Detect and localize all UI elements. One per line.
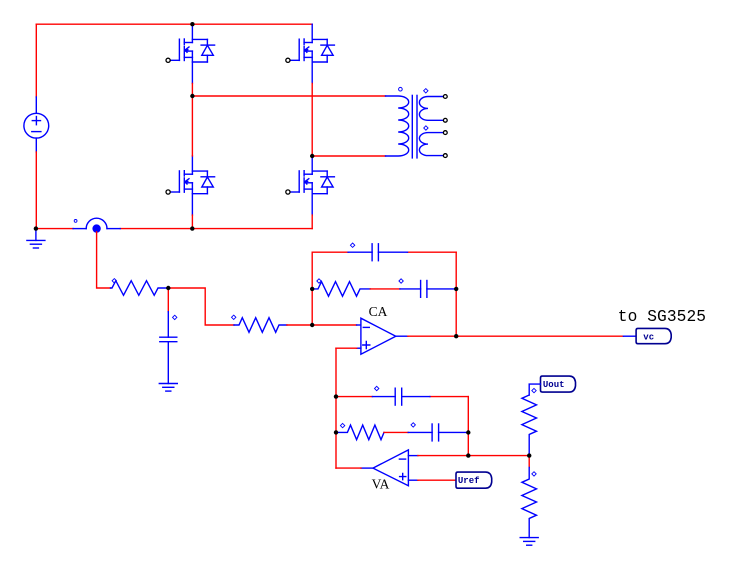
node marker R5	[532, 388, 536, 392]
op-amp CA minus sign	[363, 326, 369, 328]
resistor R2	[234, 318, 287, 333]
wire R2 to CA minus	[287, 324, 357, 326]
resistor R3	[312, 282, 370, 297]
node bottom left	[34, 226, 38, 230]
wire VA right vertical	[467, 397, 469, 456]
wire feedback right vertical	[455, 252, 457, 336]
node divider	[527, 453, 531, 457]
node marker R6	[532, 472, 536, 476]
transformer TX primary	[386, 96, 409, 156]
node A	[190, 94, 194, 98]
voltage source Vdc	[24, 113, 49, 138]
wire CA plus input	[357, 347, 361, 349]
node CA minus	[310, 323, 314, 327]
wire VA top branch	[336, 396, 468, 398]
op-amp VA minus sign	[399, 458, 405, 460]
svg-text:Uref: Uref	[458, 476, 480, 486]
op-amp VA plus sign	[400, 474, 406, 480]
wire node A to transformer	[192, 95, 385, 97]
node top rail	[190, 22, 194, 26]
wire VA minus input	[408, 455, 418, 457]
wire feedback left vertical	[311, 252, 313, 325]
transformer dot marker secondary 2	[424, 126, 428, 130]
node marker R1	[112, 279, 116, 283]
node VA fb mid	[334, 430, 338, 434]
node marker C5	[411, 423, 415, 427]
wire node B to transformer	[312, 155, 385, 157]
wire divider junction	[528, 456, 530, 468]
node marker R2	[232, 315, 236, 319]
svg-text:vc: vc	[643, 332, 654, 342]
node marker R4	[340, 423, 344, 427]
transistor Q1 (top left MOSFET)	[166, 24, 215, 83]
resistor R4	[336, 425, 384, 440]
svg-text:Uout: Uout	[543, 380, 565, 390]
node marker C1	[173, 315, 177, 319]
transformer dot marker secondary 1	[424, 89, 428, 93]
wire C1 top	[167, 288, 169, 312]
wire R3 to C3	[370, 288, 400, 290]
transformer core	[412, 95, 417, 157]
svg-text:to SG3525: to SG3525	[618, 308, 706, 326]
node fb right	[454, 287, 458, 291]
wire control left vertical	[335, 348, 337, 468]
resistor R1	[111, 281, 169, 296]
node marker C4	[375, 386, 379, 390]
transistor Q4 (bottom right MOSFET)	[286, 156, 335, 215]
wire leg A	[191, 83, 193, 228]
wire bottom rail	[36, 228, 312, 230]
node VA fb top	[334, 394, 338, 398]
capacitor C4	[395, 388, 402, 405]
wire CA output	[396, 335, 408, 337]
transistor Q3 (top right MOSFET)	[286, 24, 335, 83]
ground (C1)	[159, 384, 177, 392]
capacitor C2	[372, 244, 378, 261]
wire source bottom	[35, 138, 37, 152]
wire R1 node to R2	[168, 288, 234, 325]
svg-text:CA: CA	[369, 304, 388, 319]
ground (input)	[35, 229, 37, 241]
capacitor C3	[421, 281, 427, 298]
resistor R5	[522, 395, 537, 456]
op-amp CA plus sign	[363, 342, 370, 349]
wire VA plus input	[408, 479, 418, 481]
tag Uref	[456, 472, 492, 488]
wire leg B	[311, 83, 313, 228]
resistor R6	[522, 467, 537, 537]
wire sensor output	[97, 232, 111, 288]
wire left drop to source	[35, 24, 37, 97]
node R1 out	[166, 286, 170, 290]
transformer secondary 2	[419, 133, 443, 156]
node fb left	[310, 287, 314, 291]
tag Uout	[541, 376, 576, 392]
ground (divider)	[520, 538, 538, 546]
transformer terminals	[443, 95, 447, 158]
transformer dot marker primary	[399, 87, 403, 91]
wire feedback top branch	[312, 251, 456, 253]
op-amp CA	[361, 318, 396, 354]
wire R4 to C5	[384, 431, 408, 433]
wire Uout to divider	[529, 384, 540, 395]
transformer secondary 1	[419, 97, 443, 121]
node marker sensor	[74, 220, 77, 223]
node B	[310, 154, 314, 158]
capacitor C5	[432, 424, 439, 441]
node marker C2	[350, 243, 354, 247]
node bottom rail	[190, 226, 194, 230]
current sensor	[73, 218, 120, 232]
tag vc	[636, 328, 671, 343]
wire top rail	[36, 23, 312, 25]
node CA out	[454, 334, 458, 338]
transistor Q2 (bottom left MOSFET)	[166, 156, 215, 215]
wire VA output	[361, 467, 373, 469]
capacitor C1	[160, 337, 177, 383]
op-amp VA	[373, 450, 408, 486]
node marker C3	[399, 279, 403, 283]
svg-text:VA: VA	[372, 477, 390, 492]
node VA minus	[466, 453, 470, 457]
node marker R3	[317, 279, 321, 283]
node VA right	[466, 430, 470, 434]
